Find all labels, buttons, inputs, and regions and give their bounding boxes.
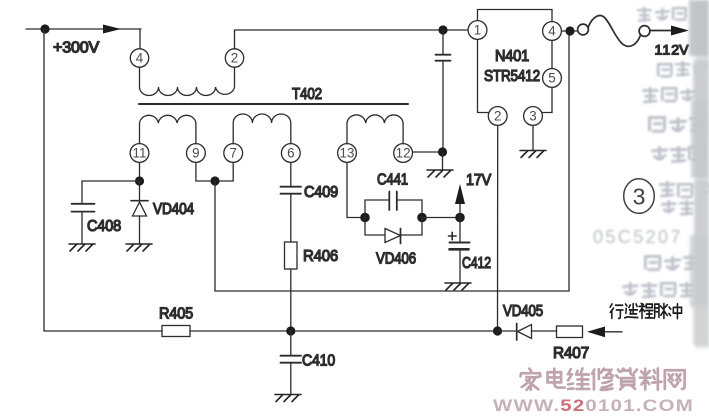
wire pin2 rail down	[497, 126, 499, 332]
wire top feed from left edge	[26, 28, 141, 30]
watermark 家电维修资料网	[521, 368, 685, 389]
wire drop to pin 4	[139, 29, 141, 49]
pin 1 (N401)	[468, 21, 487, 40]
svg-text:5: 5	[548, 71, 555, 86]
wire pin4 to output	[562, 30, 578, 32]
wire to 17V node	[422, 217, 460, 219]
node C441 left	[360, 213, 370, 223]
wire C441 top right	[397, 200, 422, 218]
svg-text:R407: R407	[553, 345, 589, 362]
svg-text:3: 3	[529, 109, 536, 124]
svg-text:9: 9	[192, 146, 199, 161]
svg-text:05C5207: 05C5207	[593, 227, 683, 247]
resistor R407	[557, 326, 583, 338]
bleed-through ghost text right margin	[593, 7, 709, 298]
net label flyback pulse 行逆程脉冲	[610, 303, 681, 318]
pin 13	[338, 144, 357, 163]
IC N401 box	[478, 10, 553, 113]
node C410	[286, 326, 295, 335]
ground under VD404	[126, 244, 152, 251]
arrow on +300V feed	[103, 25, 121, 34]
svg-text:WWW.520101.COM: WWW.520101.COM	[493, 397, 694, 415]
diode VD406	[385, 229, 401, 243]
wire to 112V arrow	[650, 30, 672, 32]
capacitor C441	[388, 192, 390, 211]
node at snubber cap branch	[438, 25, 447, 34]
wire C409 to R406	[290, 194, 292, 242]
wire pin13 drop	[347, 163, 360, 218]
node line B / pin2 rail	[493, 326, 502, 335]
resistor R406	[285, 242, 298, 269]
node pin4 output	[565, 26, 574, 35]
svg-text:4: 4	[548, 24, 556, 39]
wire pin3 to ground	[532, 126, 534, 151]
wire to C410	[290, 331, 292, 355]
wire feedback rail down and across	[215, 31, 569, 291]
transformer T402 primary winding	[140, 68, 235, 96]
capacitor C412	[450, 242, 470, 244]
ground under C410	[275, 395, 301, 402]
arrow 112V	[671, 26, 689, 36]
snubber capacitor on pin1 rail	[442, 30, 444, 54]
capacitor C409	[281, 186, 302, 188]
wire C408 to ground	[81, 212, 83, 244]
svg-text:1: 1	[474, 23, 481, 38]
T402 secondary winding 7-6	[233, 114, 291, 144]
svg-text:2: 2	[494, 109, 501, 124]
wire 17V arrow stem	[459, 200, 461, 218]
svg-text:R405: R405	[159, 306, 193, 323]
svg-text:C410: C410	[302, 353, 335, 370]
pin 11	[130, 144, 149, 163]
wire line B R405 to C410 node	[190, 330, 498, 332]
T402 secondary winding 13-12	[347, 115, 403, 144]
connector circle right	[639, 26, 650, 37]
pin 7	[224, 144, 243, 163]
svg-text:3: 3	[633, 184, 646, 210]
wire pin11 drop	[139, 163, 141, 182]
svg-text:C412: C412	[462, 255, 491, 272]
wire C441 top branch	[365, 200, 389, 218]
connector circle left	[578, 24, 589, 35]
svg-text:VD406: VD406	[376, 251, 416, 268]
wire R406 down crossing to line B	[290, 269, 292, 331]
scanner edge shade	[689, 0, 709, 348]
svg-text:6: 6	[287, 146, 294, 161]
ground under C408	[69, 244, 95, 251]
node junction +300V	[40, 24, 49, 33]
svg-text:4: 4	[136, 51, 144, 66]
capacitor C408	[72, 203, 95, 205]
diode VD404	[139, 181, 141, 201]
node under pins 9-7	[210, 176, 219, 185]
svg-text:C441: C441	[377, 172, 408, 189]
pin 4 (T402 primary)	[130, 49, 148, 67]
polarity plus C412	[449, 232, 457, 239]
svg-text:11: 11	[133, 146, 147, 161]
svg-text:STR5412: STR5412	[484, 68, 540, 85]
pin 5 (N401)	[543, 69, 562, 88]
wire to C408	[82, 181, 140, 203]
pin 3 (N401)	[524, 107, 543, 126]
wire pin6 drop	[290, 163, 292, 187]
svg-text:VD404: VD404	[153, 201, 194, 218]
wire pin9 drop to node	[196, 163, 215, 182]
page marker circled 3	[624, 179, 655, 214]
pin 9	[187, 144, 206, 163]
pin 2 (N401)	[488, 107, 507, 126]
wire left rail	[44, 29, 162, 331]
resistor R405	[162, 326, 190, 337]
svg-text:12: 12	[396, 146, 411, 161]
svg-text:T402: T402	[292, 86, 322, 103]
wire C410 to ground	[290, 363, 292, 394]
transformer core	[139, 103, 408, 105]
wire VD406 bottom branch left	[365, 218, 385, 236]
wire pin12 to rail	[413, 151, 444, 153]
ground under pin 3	[520, 151, 546, 158]
pin 2 (T402 primary)	[225, 49, 243, 67]
svg-text:C409: C409	[304, 184, 338, 201]
svg-text:17V: 17V	[466, 172, 492, 189]
wire VD406 bottom branch right	[401, 218, 423, 236]
wire to ground	[442, 152, 444, 169]
svg-text:N401: N401	[495, 48, 529, 65]
svg-text:112V: 112V	[655, 43, 690, 59]
svg-text:+300V: +300V	[53, 40, 100, 57]
ground under C412	[445, 283, 471, 290]
svg-text:13: 13	[340, 146, 355, 161]
node pin12 rail	[438, 147, 447, 156]
arrow 17V output	[455, 184, 465, 204]
wire pin7 drop to node	[215, 163, 233, 182]
arrow flyback input	[587, 327, 605, 338]
svg-text:C408: C408	[87, 218, 121, 235]
wire pin2 riser and top rail to N401 pin1	[235, 30, 469, 49]
node C441 right	[417, 213, 427, 223]
wire squiggle	[588, 16, 641, 47]
T402 secondary winding 11-9	[140, 115, 196, 143]
pin 4 (N401)	[543, 22, 562, 41]
node 17V	[455, 213, 465, 223]
svg-text:2: 2	[231, 51, 238, 66]
pin 12	[394, 144, 413, 163]
svg-text:R406: R406	[303, 248, 338, 265]
wire C412 to ground	[459, 249, 461, 283]
capacitor C410	[281, 355, 302, 357]
wire to C412	[459, 218, 461, 243]
diode VD405	[498, 330, 518, 332]
ground under pin12 node	[427, 170, 453, 177]
svg-text:7: 7	[229, 146, 236, 161]
pin 6	[281, 144, 300, 163]
svg-text:VD405: VD405	[503, 303, 543, 320]
node under pin 11	[135, 176, 144, 185]
